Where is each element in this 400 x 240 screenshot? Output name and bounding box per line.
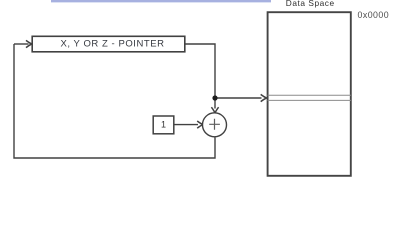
svg-text:Data Space: Data Space xyxy=(286,0,335,8)
memory row upper line xyxy=(268,94,351,96)
memory row lower line xyxy=(268,99,351,101)
adder circle xyxy=(203,113,227,137)
register box X,Y,Z pointer xyxy=(32,36,185,52)
wire: junction down to adder xyxy=(214,98,216,109)
arrowhead into pointer box xyxy=(26,40,32,47)
arrowhead into data space xyxy=(261,94,267,101)
wire: pointer box output to junction xyxy=(185,44,215,98)
decorative top rule xyxy=(51,0,271,2)
arrowhead into adder left xyxy=(197,121,203,128)
wire: junction to data space xyxy=(215,97,262,99)
wire: into pointer box xyxy=(14,43,29,45)
constant box 1 xyxy=(153,116,174,134)
plus sign xyxy=(209,119,220,130)
arrowhead into adder top xyxy=(211,107,218,113)
wire: feedback loop left vertical and bottom horizontal xyxy=(14,44,215,158)
junction node xyxy=(212,95,217,100)
svg-text:X, Y OR Z - POINTER: X, Y OR Z - POINTER xyxy=(60,38,164,49)
svg-text:1: 1 xyxy=(161,120,166,130)
wire: constant box to adder xyxy=(174,124,198,126)
svg-text:0x0000: 0x0000 xyxy=(358,10,390,20)
data space memory rectangle xyxy=(268,12,351,176)
